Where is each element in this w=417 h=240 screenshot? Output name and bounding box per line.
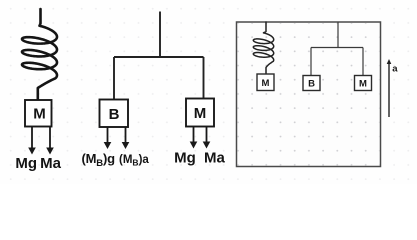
mass box M (left) — [25, 100, 52, 127]
svg-text:M: M — [359, 78, 367, 89]
mass box M (frame, on spring) — [257, 74, 274, 91]
spring S1 (left, large coil) — [22, 9, 57, 100]
svg-text:Mg: Mg — [15, 155, 37, 172]
acceleration arrow a (up) — [388, 63, 390, 117]
svg-text:B: B — [308, 78, 315, 89]
wire: middle hanger stem — [159, 12, 161, 58]
svg-text:Ma: Ma — [204, 149, 225, 166]
force arrow Ma (left) — [49, 127, 51, 149]
mass box M (middle) — [186, 99, 214, 127]
force arrow (MB)g — [107, 127, 109, 143]
svg-text:M: M — [194, 105, 207, 122]
spring S2 (small, in frame) — [253, 22, 273, 74]
mass box B (middle) — [100, 100, 129, 128]
svg-text:a: a — [392, 64, 398, 75]
wire: drop to box M (middle) — [203, 57, 205, 99]
wire: drop to box B — [113, 57, 115, 100]
force arrow Mg (middle) — [193, 127, 195, 143]
svg-text:Ma: Ma — [40, 155, 61, 172]
svg-text:M: M — [33, 106, 46, 123]
force arrow Mg (left) — [31, 127, 33, 149]
svg-text:Mg: Mg — [174, 149, 196, 166]
wire: frame horizontal bar — [311, 47, 363, 49]
force arrow Ma (middle) — [206, 127, 208, 143]
wire: middle horizontal bar — [114, 56, 204, 58]
wire: frame drop to M — [362, 48, 364, 76]
frame: accelerating reference box (right) — [237, 22, 381, 167]
wire: frame hanger stem — [337, 22, 339, 48]
svg-text:M: M — [262, 78, 270, 89]
force arrow (MB)a — [125, 127, 127, 143]
mass box B (frame) — [303, 76, 320, 91]
wire: frame drop to B — [310, 48, 312, 76]
mass box M2 (frame) — [355, 76, 372, 91]
svg-text:B: B — [109, 106, 120, 123]
